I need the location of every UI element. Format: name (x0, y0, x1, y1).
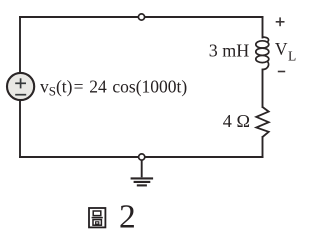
svg-text:4 Ω: 4 Ω (223, 111, 250, 131)
svg-text:3 mH: 3 mH (209, 41, 250, 61)
svg-text:vS(t)=24cos(1000t): vS(t)=24cos(1000t) (40, 77, 187, 99)
svg-text:2: 2 (119, 198, 136, 235)
svg-text:VL: VL (275, 39, 296, 63)
